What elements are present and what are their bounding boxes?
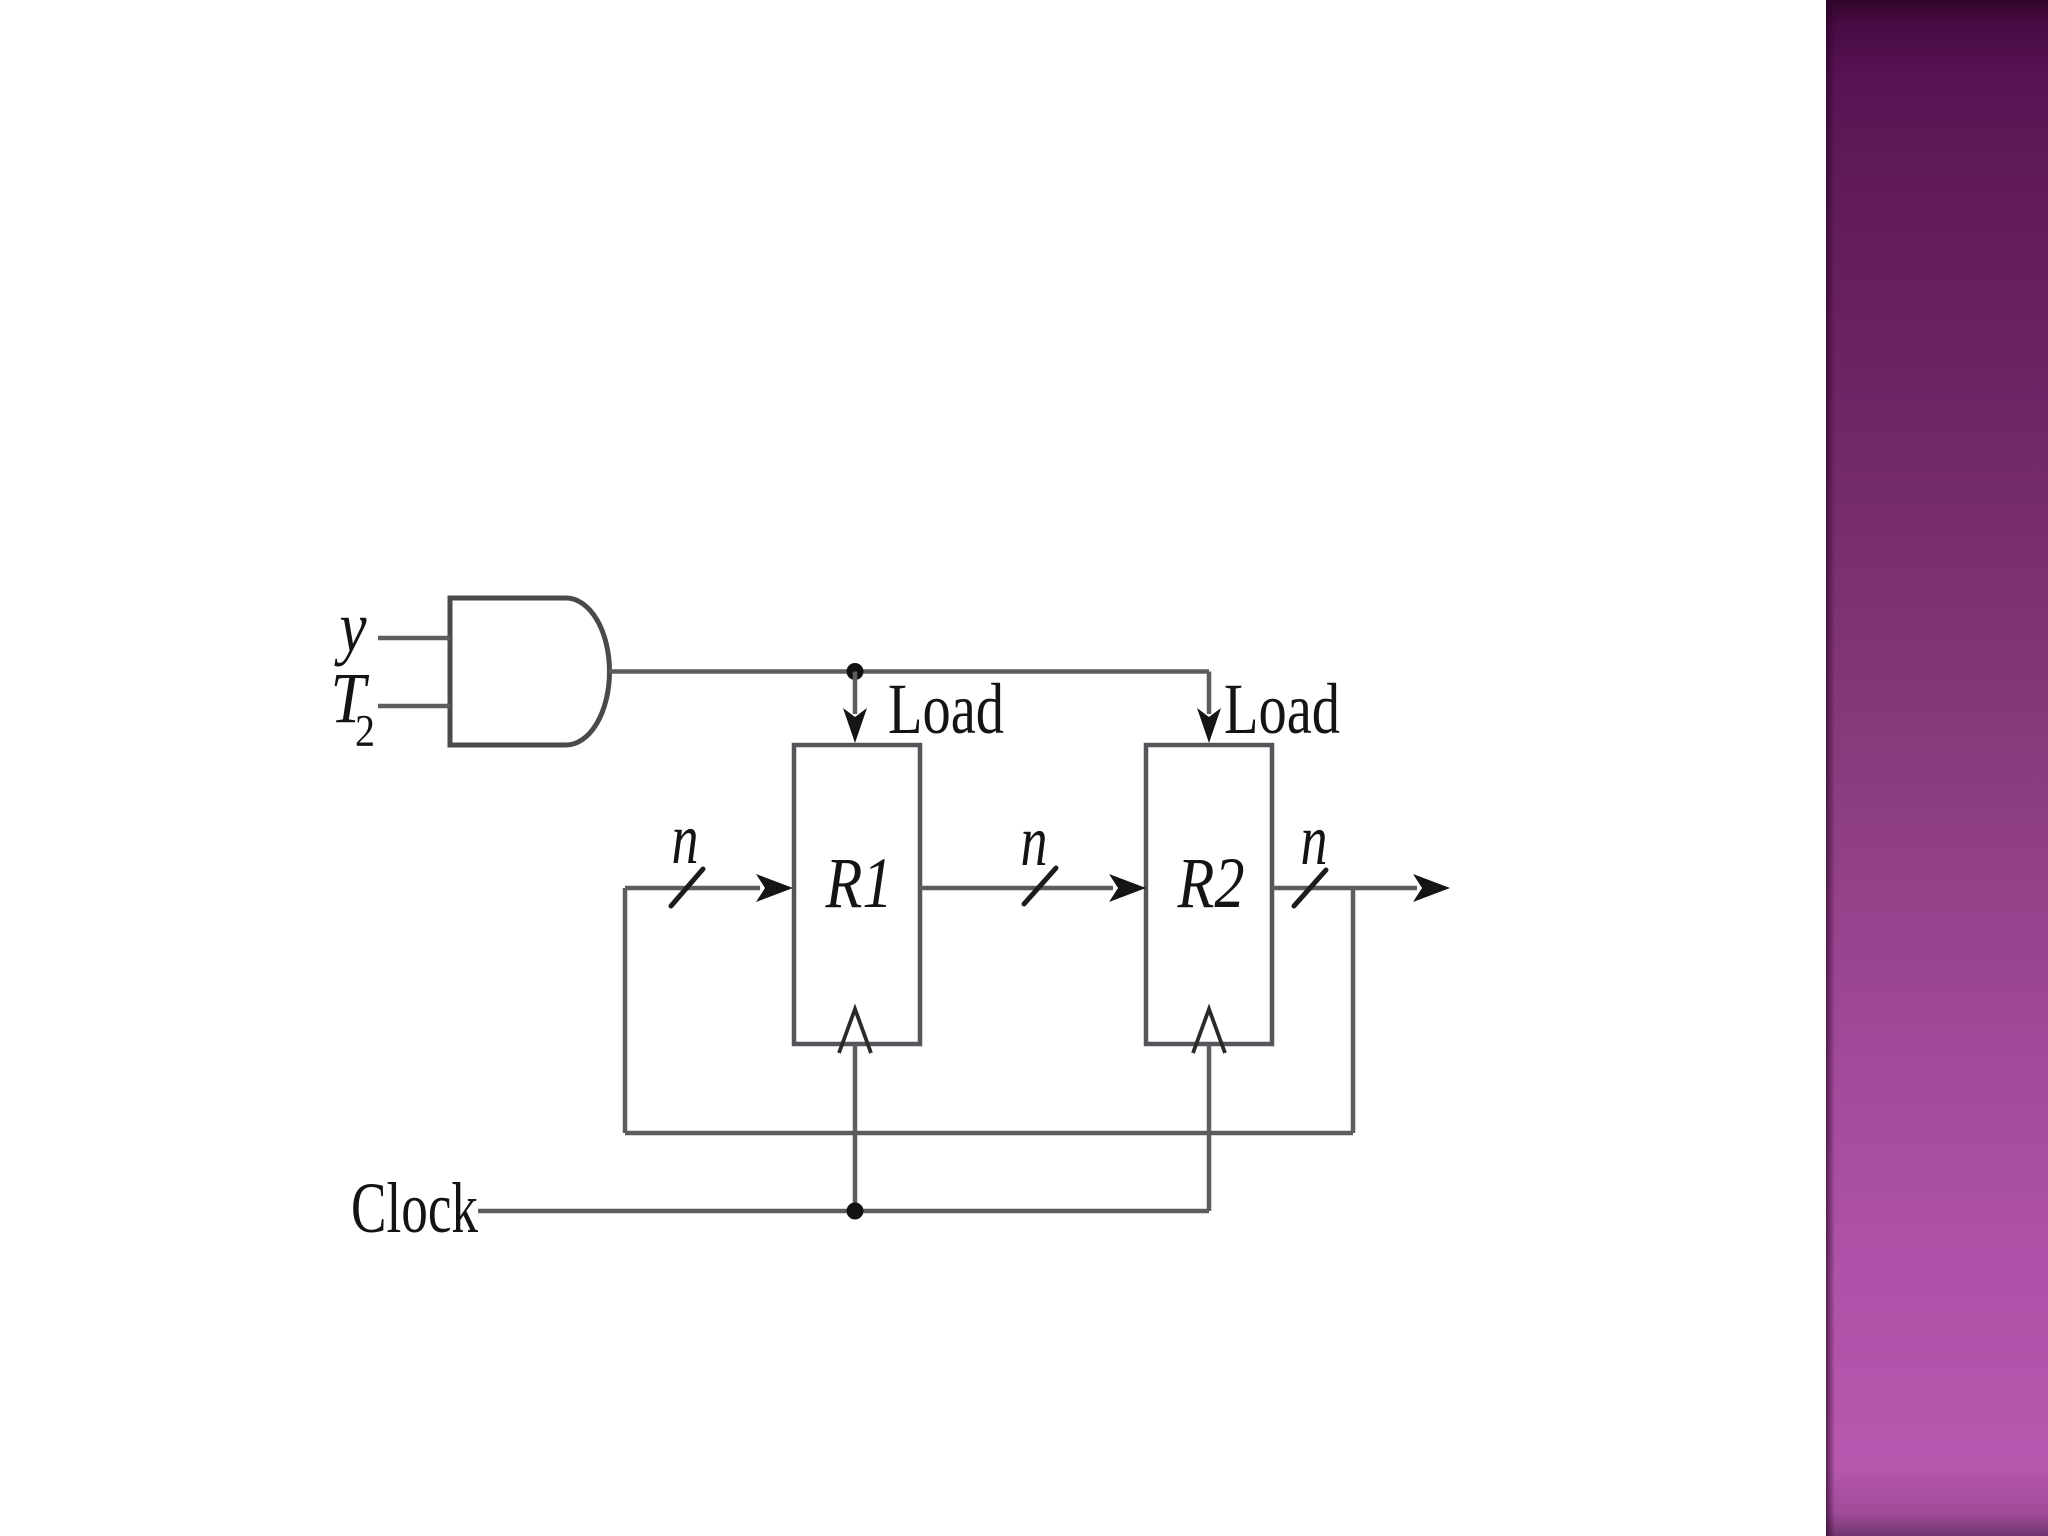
bus slash n2 <box>1024 868 1056 904</box>
svg-text:n: n <box>1021 801 1048 881</box>
wire y input stub <box>378 636 450 641</box>
svg-text:R1: R1 <box>825 843 893 923</box>
arrowhead output <box>1413 874 1450 902</box>
arrowhead load R2 <box>1197 708 1221 743</box>
wire feedback rise to R1 input <box>623 888 628 1133</box>
wire AND output to Load line <box>609 669 1209 674</box>
clock triangle R2 <box>1193 1009 1225 1053</box>
svg-text:Clock: Clock <box>351 1168 478 1248</box>
purple sidebar <box>1826 0 2048 1536</box>
svg-text:R2: R2 <box>1177 843 1245 923</box>
bus slash n1 <box>671 869 703 906</box>
wire clock line <box>478 1209 1209 1214</box>
svg-text:n: n <box>1301 800 1328 880</box>
arrowhead into R2 <box>1109 874 1146 902</box>
svg-text:Load: Load <box>888 669 1004 749</box>
node clock junction <box>847 1203 864 1220</box>
arrowhead into R1 <box>756 874 793 902</box>
node load junction <box>847 663 864 680</box>
svg-text:Load: Load <box>1224 669 1340 749</box>
wire feedback drop from output <box>1351 888 1356 1133</box>
wire clock rise to R1 <box>853 1044 858 1211</box>
bus slash n3 <box>1294 870 1326 906</box>
svg-text:y: y <box>334 587 367 667</box>
AND gate U1 <box>450 598 610 745</box>
svg-text:2: 2 <box>355 706 375 756</box>
label T2 (gate input) <box>331 658 376 756</box>
wire T2 input stub <box>378 704 450 709</box>
clock triangle R1 <box>839 1009 871 1053</box>
wire feedback bottom run <box>625 1131 1353 1136</box>
wire clock rise to R2 <box>1207 1044 1212 1211</box>
arrowhead load R1 <box>843 708 867 743</box>
svg-text:n: n <box>672 799 699 879</box>
wire load drop to R1 <box>853 672 858 715</box>
wire load drop to R2 <box>1207 672 1212 715</box>
register R1 box <box>794 745 920 1044</box>
register R2 box <box>1146 745 1272 1044</box>
wire R2 output <box>1272 886 1417 891</box>
purple sidebar left edge shading <box>1826 0 1835 1536</box>
wire R1 to R2 <box>920 886 1113 891</box>
wire data input to R1 <box>625 886 760 891</box>
